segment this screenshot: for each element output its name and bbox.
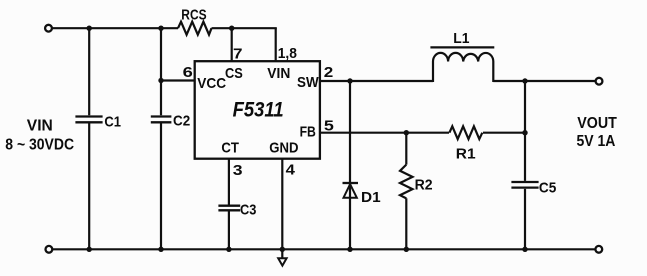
svg-text:C3: C3: [240, 203, 256, 219]
svg-text:GND: GND: [269, 141, 298, 157]
wire R1 to C5 branch: [483, 132, 525, 134]
svg-text:SW: SW: [297, 75, 319, 91]
svg-text:2: 2: [324, 65, 334, 81]
junction bottom rail C2: [158, 247, 163, 252]
terminal VOUT- (bottom-right): [595, 246, 602, 253]
capacitor C2: [151, 117, 172, 123]
svg-text:VIN: VIN: [267, 66, 290, 82]
ground triangle: [278, 258, 286, 265]
wire R2 branch lower: [405, 198, 407, 249]
svg-text:C2: C2: [173, 114, 190, 130]
wire top rail from RCS to VIN pin corner: [212, 27, 277, 29]
capacitor C5: [511, 182, 538, 188]
ground stub: [281, 249, 283, 258]
capacitor C1: [75, 117, 102, 123]
svg-text:R1: R1: [456, 147, 476, 163]
wire top rail from input terminal to RCS: [52, 27, 178, 29]
wire C1 branch lower: [88, 124, 90, 250]
svg-text:8 ~ 30VDC: 8 ~ 30VDC: [5, 137, 74, 154]
wire C1 branch upper: [88, 28, 90, 115]
junction on top rail at CS pin: [229, 26, 234, 31]
svg-text:VCC: VCC: [197, 76, 226, 92]
svg-text:R2: R2: [415, 178, 433, 194]
svg-text:7: 7: [233, 47, 243, 63]
terminal VIN- (bottom-left): [46, 246, 53, 253]
svg-text:D1: D1: [361, 190, 381, 206]
svg-text:C1: C1: [104, 115, 121, 131]
svg-text:F5311: F5311: [233, 98, 284, 122]
svg-text:VIN: VIN: [27, 117, 53, 134]
resistor R1: [449, 126, 482, 139]
junction at R2 branch on FB wire: [404, 130, 409, 135]
junction at VCC stub: [158, 78, 163, 83]
wire FB (pin 5) to R1: [320, 132, 449, 134]
wire L1 to output terminal: [493, 80, 595, 82]
inductor L1 bar: [430, 46, 494, 48]
wire pin 1,8 drop (VIN pin): [275, 28, 277, 61]
op-amp U1 F5311 IC body: [195, 61, 320, 159]
svg-text:CT: CT: [221, 141, 239, 157]
terminal VIN+ (top-left input): [45, 25, 52, 32]
wire R2 branch upper: [405, 133, 407, 165]
junction bottom rail C1: [87, 247, 92, 252]
svg-text:L1: L1: [453, 31, 469, 47]
diode D1 triangle: [344, 184, 357, 198]
svg-text:VOUT: VOUT: [577, 115, 617, 132]
wire GND pin 4: [281, 159, 283, 250]
junction bottom rail D1: [347, 247, 352, 252]
junction bottom rail C3: [226, 247, 231, 252]
junction bottom rail R2: [404, 247, 409, 252]
junction at C5 branch on output wire: [522, 78, 527, 83]
svg-text:5V 1A: 5V 1A: [577, 133, 616, 150]
inductor L1 humps: [433, 53, 493, 62]
svg-text:3: 3: [233, 163, 243, 179]
svg-text:RCS: RCS: [181, 8, 207, 24]
terminal VOUT+: [596, 78, 603, 85]
wire CT pin 3 lower: [228, 211, 230, 249]
wire C2 branch lower: [160, 124, 162, 250]
wire C5 branch lower: [524, 189, 526, 250]
junction at D1 branch on SW wire: [347, 78, 352, 83]
capacitor C3: [218, 206, 240, 211]
wire C5 branch upper: [524, 81, 526, 181]
wire CT pin 3 upper: [228, 159, 230, 205]
svg-text:FB: FB: [300, 125, 316, 141]
svg-text:C5: C5: [539, 180, 556, 196]
resistor R2: [400, 165, 413, 199]
wire bottom rail: [53, 248, 596, 250]
wire D1 branch: [349, 81, 351, 249]
wire VCC stub to pin 6: [161, 79, 195, 81]
junction on top rail at C1 branch: [87, 26, 92, 31]
svg-text:1,8: 1,8: [278, 46, 297, 62]
junction on top rail at C2/VCC branch: [158, 26, 163, 31]
wire pin 7 drop (CS pin): [231, 28, 233, 61]
resistor RCS: [178, 22, 212, 35]
svg-text:CS: CS: [225, 66, 243, 82]
svg-text:4: 4: [286, 163, 296, 179]
inductor L1 risers: [433, 62, 493, 83]
junction bottom rail C5: [522, 247, 527, 252]
junction at C5 branch on FB wire: [522, 130, 527, 135]
wire SW output (pin 2) to L1: [320, 80, 433, 82]
svg-text:6: 6: [183, 65, 193, 81]
diode D1 cathode bar: [343, 182, 359, 184]
wire C2 branch upper: [160, 28, 162, 115]
junction bottom rail GND pin: [280, 247, 285, 252]
